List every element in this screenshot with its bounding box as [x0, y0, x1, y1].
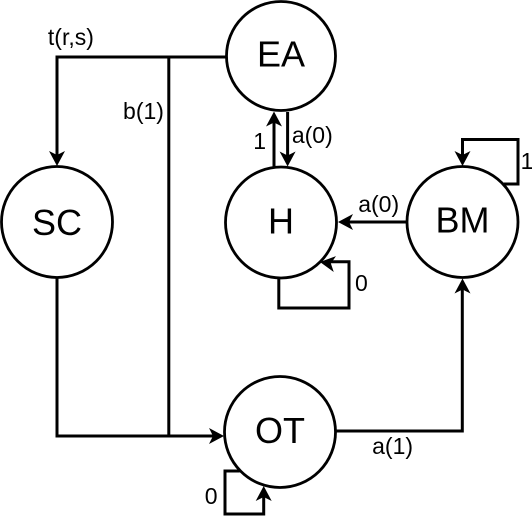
svg-text:EA: EA — [257, 34, 305, 75]
wire self-loop BM (1) — [463, 140, 519, 185]
wire edge BM to H (a(0)) — [348, 221, 407, 224]
svg-text:1: 1 — [253, 128, 266, 154]
svg-text:H: H — [268, 201, 294, 242]
arrowhead into H lower-right — [319, 254, 336, 272]
wire self-loop OT (0) — [225, 471, 264, 514]
arrowhead into OT left — [209, 428, 224, 444]
wire edge OT to BM (a(1)) — [336, 289, 462, 432]
svg-text:OT: OT — [255, 410, 305, 451]
svg-text:BM: BM — [436, 200, 490, 241]
svg-text:a(0): a(0) — [358, 191, 399, 217]
svg-text:a(1): a(1) — [372, 433, 413, 459]
arrowhead into H right — [338, 214, 353, 230]
arrowhead into BM bottom — [455, 279, 471, 294]
svg-text:0: 0 — [205, 483, 218, 509]
arrowhead into H top — [280, 152, 296, 167]
svg-text:b(1): b(1) — [123, 98, 164, 124]
wire edge EA to H (a(0)) — [286, 112, 289, 157]
state node EA — [227, 2, 336, 111]
state node H — [226, 167, 337, 278]
arrowhead into SC top — [49, 151, 65, 166]
wire edge EA to OT (b(1)) — [169, 57, 226, 436]
svg-text:SC: SC — [32, 202, 82, 243]
wire edge SC to OT — [57, 278, 214, 436]
state node SC — [2, 167, 113, 278]
state node OT — [225, 377, 336, 488]
wire self-loop H (0) — [279, 262, 349, 308]
wire edge H to EA — [273, 122, 276, 168]
state node BM — [407, 167, 518, 278]
wire edge EA to SC — [57, 57, 226, 156]
arrowhead into BM top — [455, 151, 471, 166]
arrowhead into EA bottom — [266, 112, 282, 127]
svg-text:1: 1 — [521, 148, 532, 174]
svg-text:t(r,s): t(r,s) — [48, 24, 94, 50]
svg-text:a(0): a(0) — [292, 122, 333, 148]
svg-text:0: 0 — [355, 270, 368, 296]
arrowhead into OT bottom — [256, 486, 272, 501]
